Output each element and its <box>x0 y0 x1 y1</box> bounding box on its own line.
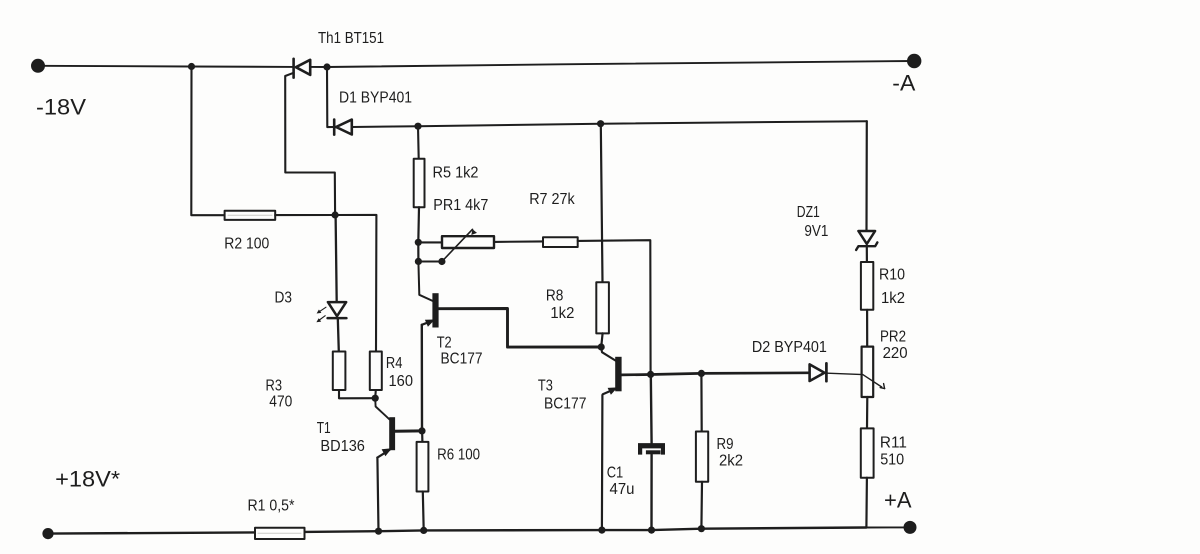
node gate/R2 junction <box>332 211 339 218</box>
svg-text:R1 0,5*: R1 0,5* <box>248 497 295 514</box>
svg-text:R11: R11 <box>880 434 907 451</box>
wire R8 top <box>601 124 603 283</box>
transistor T3 emitter lead <box>603 389 616 395</box>
svg-text:T2: T2 <box>437 334 452 351</box>
svg-text:T1: T1 <box>317 420 331 437</box>
terminal +18V <box>42 528 53 539</box>
LED D3 triangle <box>328 302 346 316</box>
wire PR1 to R7 <box>494 240 543 243</box>
wire node to D3 <box>336 215 337 302</box>
svg-text:R7 27k: R7 27k <box>529 191 575 208</box>
svg-text:220: 220 <box>883 345 908 362</box>
diode D2 cathode bar <box>825 363 828 381</box>
transistor T2 bar <box>432 293 438 327</box>
LED D3 light arrow 2 <box>316 316 325 323</box>
node R7/C1 junction <box>647 371 654 378</box>
transistor T1 bar <box>389 417 395 450</box>
LED D3 light arrow 1 <box>317 307 326 313</box>
terminal -18V <box>31 59 45 73</box>
transistor T3 base lead <box>622 373 810 375</box>
resistor R5 <box>414 159 425 208</box>
node PR1 wiper dot <box>438 258 445 265</box>
wire R9 top <box>700 373 702 431</box>
svg-text:R4: R4 <box>386 355 403 372</box>
diode D2 triangle <box>810 364 825 381</box>
transistor T2 base lead <box>439 309 602 348</box>
wire R3 to base node <box>339 390 375 398</box>
wire R5 bottom <box>417 207 420 261</box>
svg-text:R5 1k2: R5 1k2 <box>433 165 479 182</box>
node rail T1 <box>375 528 382 535</box>
svg-text:1k2: 1k2 <box>881 290 905 307</box>
capacitor C1 top plate <box>638 443 665 455</box>
node R8 top junction <box>597 120 604 127</box>
wire R4 to base node <box>374 390 377 398</box>
node rail R6 <box>420 527 427 534</box>
transistor T2 emitter lead <box>422 321 433 325</box>
resistor R1 <box>255 528 305 539</box>
wire right column top <box>865 121 867 231</box>
svg-text:D1 BYP401: D1 BYP401 <box>339 90 412 107</box>
svg-text:160: 160 <box>389 373 414 390</box>
wire D1 branch vertical <box>327 67 333 127</box>
resistor R9 <box>696 432 708 482</box>
wire R11 to bottom rail <box>865 478 868 528</box>
wire node to R4 top <box>335 215 376 352</box>
svg-text:470: 470 <box>269 394 292 411</box>
svg-text:BC177: BC177 <box>544 396 587 413</box>
node T2 base / R8 junction <box>598 343 605 350</box>
thyristor Th1 cathode bar <box>292 59 295 78</box>
wire T1 emitter to bottom rail <box>377 458 378 532</box>
capacitor C1 bottom plate <box>646 450 661 454</box>
wire D2 wiper to PR2 <box>828 373 885 388</box>
node T1 base junction <box>418 427 425 434</box>
thyristor Th1 gate lead <box>285 73 335 215</box>
svg-text:+18V*: +18V* <box>55 467 120 492</box>
svg-text:R3: R3 <box>266 378 283 395</box>
wire C1 bottom <box>650 454 652 530</box>
resistor R2 <box>225 211 276 220</box>
svg-text:R6 100: R6 100 <box>437 446 480 463</box>
node rail R9 <box>698 525 705 532</box>
node Th1 cathode junction <box>323 63 330 70</box>
zener DZ1 bar <box>856 242 877 250</box>
wire R2 to gate node <box>275 214 335 216</box>
resistor R6 <box>417 442 429 492</box>
LED D3 cathode bar <box>328 317 347 320</box>
svg-text:R10: R10 <box>879 267 905 284</box>
transistor T1 collector lead <box>375 398 389 419</box>
node PR1 left junction <box>415 239 422 246</box>
wire R7 to T3 base node <box>578 240 651 374</box>
svg-text:BD136: BD136 <box>320 438 365 455</box>
wire C1 top <box>650 375 653 444</box>
wire PR2 to R11 <box>866 397 868 428</box>
svg-text:-18V: -18V <box>36 95 86 120</box>
svg-text:T3: T3 <box>538 378 553 395</box>
wire R8 bottom <box>601 333 602 347</box>
svg-text:Th1 BT151: Th1 BT151 <box>318 30 384 47</box>
svg-text:R9: R9 <box>717 436 734 453</box>
wire D3 to R3 <box>338 318 339 351</box>
resistor R8 <box>596 282 609 333</box>
terminal +A <box>904 521 917 534</box>
wire D1 net rail <box>352 121 867 127</box>
svg-text:D3: D3 <box>275 289 293 306</box>
transistor T3 bar <box>615 357 621 392</box>
svg-text:2k2: 2k2 <box>719 452 743 469</box>
wire DZ1 to R10 <box>866 246 868 262</box>
svg-text:510: 510 <box>880 452 904 469</box>
svg-text:+A: +A <box>884 488 912 513</box>
transistor T1 base lead <box>395 429 422 432</box>
svg-text:R8: R8 <box>546 288 564 305</box>
wire wiper to column <box>418 260 442 262</box>
wire T2 collector from wiper node <box>418 262 432 301</box>
resistor R3 <box>333 352 346 391</box>
svg-text:PR2: PR2 <box>880 328 906 345</box>
wire top rail left (-18V to Th1) <box>38 66 294 67</box>
node rail C1 <box>648 527 655 534</box>
diode D1 cathode bar <box>333 120 336 135</box>
wire R5 top <box>417 126 420 159</box>
node R3/R4 junction <box>372 395 379 402</box>
wire bottom rail <box>48 528 866 534</box>
wire R6 to bottom rail <box>422 492 425 531</box>
svg-text:1k2: 1k2 <box>550 305 574 322</box>
node wiper junction <box>415 258 422 265</box>
wire to PR1 <box>418 241 442 243</box>
thyristor Th1 triangle <box>296 60 310 75</box>
resistor R11 <box>861 428 874 477</box>
wire R9 bottom <box>700 482 703 529</box>
transistor T1 emitter lead <box>377 450 389 458</box>
potentiometer PR2 body <box>862 347 874 397</box>
svg-text:BC177: BC177 <box>441 351 483 368</box>
zener DZ1 triangle <box>858 231 875 244</box>
svg-text:9V1: 9V1 <box>804 223 828 240</box>
terminal -A <box>907 54 921 68</box>
resistor R7 <box>543 237 578 247</box>
resistor R10 <box>861 262 873 310</box>
potentiometer PR1 body <box>442 236 494 248</box>
svg-text:47u: 47u <box>610 481 635 498</box>
wire top rail right (Th1 to -A) <box>310 61 914 67</box>
svg-text:R2 100: R2 100 <box>224 235 269 252</box>
svg-text:D2 BYP401: D2 BYP401 <box>752 339 827 356</box>
node rail T3 <box>598 527 605 534</box>
wire T2 emitter down to T1 base node <box>421 325 424 431</box>
node R9/D2 junction <box>698 370 705 377</box>
transistor T3 collector lead <box>601 347 615 361</box>
svg-text:DZ1: DZ1 <box>797 204 820 221</box>
svg-text:C1: C1 <box>607 464 624 481</box>
node R5 top junction <box>414 123 421 130</box>
node top-left junction <box>188 63 195 70</box>
svg-text:PR1 4k7: PR1 4k7 <box>433 197 488 214</box>
wire left column to R2 <box>191 67 224 216</box>
wire node to R6 <box>421 431 423 442</box>
wire R10 to PR2 <box>866 310 868 347</box>
resistor R4 <box>370 352 382 391</box>
diode D1 triangle <box>336 120 352 135</box>
svg-text:-A: -A <box>892 71 915 96</box>
wire T3 emitter to bottom rail <box>601 395 604 530</box>
potentiometer PR1 wiper <box>442 229 477 261</box>
